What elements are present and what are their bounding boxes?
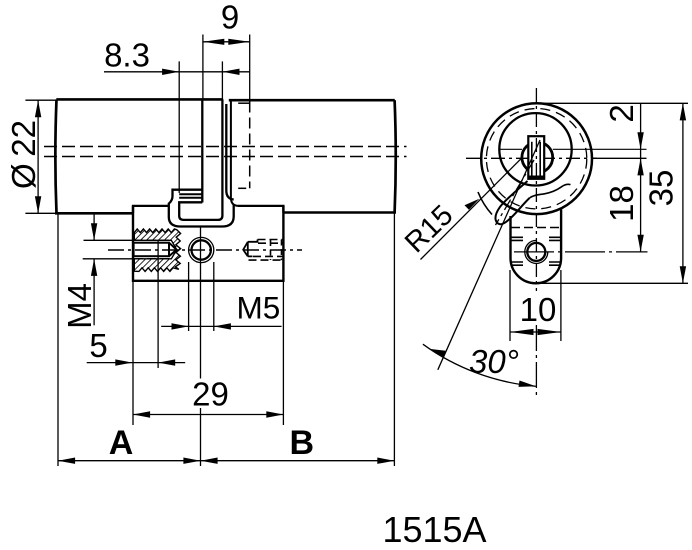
dimension 5 line (87, 362, 186, 364)
dimension 10 extension lines (509, 270, 511, 341)
hidden plug edge dashed vertical (249, 102, 251, 189)
dimension 9 extension lines (202, 35, 204, 100)
center line upper dashed (44, 146, 407, 148)
dimension M4 ticks (84, 239, 134, 241)
center line lower dashed (44, 156, 407, 158)
M5 hole thread circle (189, 237, 214, 262)
body side ticks lower (511, 262, 561, 265)
svg-text:M4: M4 (61, 283, 98, 329)
dashed circle (486, 109, 586, 209)
keyhole slot lines (532, 142, 540, 177)
dimension 2 and 18 line (640, 103, 642, 252)
key bore circle (522, 142, 553, 173)
dimension M5 extension lines (188, 262, 190, 331)
svg-text:5: 5 (89, 327, 107, 364)
M4 thread major dashed lines (134, 239, 172, 241)
vertical center line upper (535, 88, 537, 291)
rotated axis dash-dot (496, 160, 535, 225)
body side ticks upper (511, 237, 561, 240)
M5 hole bore circle (192, 240, 211, 259)
svg-text:35: 35 (643, 170, 680, 207)
M4 drill cone (169, 243, 177, 257)
dimension dia22 line (37, 100, 39, 213)
svg-text:1515A: 1515A (382, 509, 486, 550)
mounting block (133, 206, 283, 213)
key channel left wall (201, 99, 203, 202)
stop lug inner U (179, 202, 202, 220)
right half joint edge (231, 100, 239, 206)
dimension 8.3 line (104, 71, 250, 73)
svg-text:18: 18 (603, 185, 640, 222)
30 degree side line (438, 140, 540, 370)
dimension 8.3 right extension line (221, 61, 223, 99)
svg-text:9: 9 (221, 0, 239, 36)
svg-text:B: B (290, 424, 315, 462)
body below circle (509, 216, 511, 258)
dimension A B extension lines (57, 213, 59, 466)
screw axis extension line (514, 251, 648, 253)
bottom tangent extension line (538, 282, 688, 284)
key channel right wall (184, 99, 223, 219)
top tangent extension line (543, 102, 688, 104)
set screw body solid (248, 240, 258, 257)
keyhole bottom bar (529, 176, 544, 179)
dimension 5 extension line (157, 241, 159, 368)
dimension 8.3 extension line (178, 61, 180, 193)
fixing screw hole bore (527, 243, 545, 261)
stop lug outer profile (169, 190, 234, 227)
svg-text:10: 10 (520, 291, 557, 328)
dimension 29 extension lines (132, 281, 134, 425)
stop lug lamella lines (179, 193, 202, 195)
dimension A B line (58, 460, 394, 462)
svg-text:2: 2 (603, 104, 640, 122)
body dashed line (511, 227, 561, 229)
fixing screw hole thread arc (525, 240, 548, 263)
dimension M5 line (161, 325, 281, 327)
plug axis line (499, 148, 522, 150)
set screw cone point (243, 242, 248, 257)
channel second wall (226, 104, 233, 200)
keyhole rectangle (528, 136, 544, 179)
hidden plug edge dashed horizontal (238, 187, 250, 189)
svg-text:Ø 22: Ø 22 (5, 120, 42, 189)
R15 envelope arc (478, 192, 492, 215)
rotated body edge wavy line (530, 184, 571, 198)
dimension dia22 ticks (25, 99, 57, 101)
holes center line dash-dot (108, 249, 302, 251)
vertical center line lower (535, 325, 537, 396)
plug circle (499, 113, 571, 185)
chamfer line right half (238, 102, 250, 104)
dimension 35 line (682, 103, 684, 283)
M4 thread hatch region (134, 229, 180, 271)
set screw hidden dashed outline (258, 239, 283, 241)
cylinder body outline (56, 98, 223, 101)
outer axis extension line (592, 157, 647, 159)
dimension 29 line (133, 414, 283, 416)
dimension 10 line (510, 331, 561, 333)
dimension 9 line (203, 41, 250, 43)
svg-text:M5: M5 (237, 290, 281, 326)
body rounded bottom (511, 258, 562, 283)
svg-text:A: A (109, 424, 134, 462)
rotated keyway hairpin (495, 181, 529, 224)
svg-text:29: 29 (192, 376, 229, 413)
horizontal center line (466, 157, 597, 159)
dimension M4 line (93, 214, 95, 241)
svg-text:8.3: 8.3 (104, 37, 150, 74)
outer circle (481, 103, 592, 214)
R15 leader line (421, 158, 522, 260)
svg-text:30°: 30° (469, 343, 519, 380)
30 degree arc (423, 344, 536, 386)
M4 hole bore walls (134, 243, 169, 257)
center extension line of block (200, 227, 202, 379)
